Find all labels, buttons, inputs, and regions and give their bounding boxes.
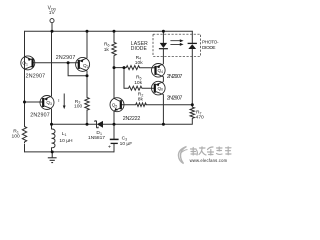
svg-text:2N2907: 2N2907 <box>56 55 76 61</box>
transistor Q4 2N2907 PNP <box>152 64 166 78</box>
svg-text:+: + <box>108 145 111 151</box>
wire R6 top from rail <box>113 31 115 42</box>
svg-text:1N5817: 1N5817 <box>88 135 105 141</box>
svg-text:PHOTO-: PHOTO- <box>202 39 219 44</box>
node Q2 collector <box>86 74 89 77</box>
light arrows <box>170 39 183 46</box>
svg-text:10k: 10k <box>135 60 143 66</box>
svg-text:www.elecfans.com: www.elecfans.com <box>190 158 228 163</box>
watermark logo swoosh <box>178 147 187 164</box>
svg-text:8k: 8k <box>138 96 144 102</box>
resistor R7 470 vertical <box>190 107 194 118</box>
wire Q2 column from rail <box>86 31 88 58</box>
resistor R2 8k horizontal <box>136 103 147 107</box>
svg-text:10k: 10k <box>134 80 142 86</box>
wire Q2 collector down to R3 <box>86 71 88 98</box>
wire node to Q5 collector <box>113 68 115 99</box>
wire R3 bottom to node rail <box>86 110 88 124</box>
current arrow I <box>63 94 66 110</box>
wire Q3 base lead <box>25 101 44 103</box>
wire bottom ground rail <box>25 151 115 153</box>
node R3 bottom <box>86 123 89 126</box>
resistor R4 10k horizontal <box>126 66 139 70</box>
transistor Q1 2N2907 PNP <box>21 56 35 70</box>
svg-text:2N2222: 2N2222 <box>123 116 141 122</box>
node R4 left <box>123 66 126 69</box>
svg-text:2N2907: 2N2907 <box>167 95 183 101</box>
resistor R6 1k vertical <box>112 42 116 55</box>
svg-text:DIODE: DIODE <box>131 46 148 52</box>
svg-text:2N2907: 2N2907 <box>26 74 46 80</box>
node Q5 collector <box>113 66 116 69</box>
svg-text:1V: 1V <box>49 10 56 16</box>
wire photodiode anode from rail corner <box>191 31 193 43</box>
wire laser cathode to Q4 <box>162 49 164 63</box>
wire L1 bottom to ground dot <box>51 148 53 152</box>
transistor Q3 2N2907 PNP <box>40 96 54 110</box>
wire R2 to photodiode node <box>146 104 192 106</box>
svg-text:2N2907: 2N2907 <box>167 74 183 80</box>
node Q3 base <box>23 101 26 104</box>
node L <box>50 123 53 126</box>
wire Q1-Q2 base link <box>33 62 79 64</box>
wire R4 base line <box>114 67 126 69</box>
transistor Q5 2N2222 NPN <box>110 98 124 112</box>
node laser rail <box>162 30 165 33</box>
transistor Q2 2N2907 PNP diode connected <box>76 57 90 71</box>
wire Q5 base to R2 <box>121 104 136 106</box>
capacitor C3 10uF <box>110 139 119 143</box>
wire Q6 collector to output rail <box>162 95 164 125</box>
wire node L to D1 cathode <box>52 123 96 125</box>
wire output rail D1 to R7 corner <box>103 119 192 125</box>
wire R6 bottom to node <box>113 56 115 68</box>
resistor R1 100 vertical <box>22 127 26 144</box>
node ground <box>51 150 54 153</box>
resistor R3 100 vertical <box>85 98 89 111</box>
svg-text:10 µH: 10 µH <box>59 138 73 144</box>
wire top rail <box>25 30 193 32</box>
wire photodiode cathode to node <box>191 49 193 105</box>
watermark CJK text <box>191 147 232 155</box>
resistor R5 10k horizontal <box>129 86 142 90</box>
node Q2 rail <box>86 30 89 33</box>
svg-text:10 µF: 10 µF <box>120 141 133 147</box>
svg-text:1k: 1k <box>104 47 110 53</box>
ground <box>48 152 57 163</box>
wire C3 bottom lead <box>113 144 115 152</box>
wire VDD stub <box>51 23 53 32</box>
node photodiode R7 <box>191 103 194 106</box>
wire R4 right to Q4 base <box>140 67 156 69</box>
svg-text:2N2907: 2N2907 <box>30 112 50 118</box>
node C3 top <box>113 123 116 126</box>
wire R5 right to Q6 base <box>142 87 155 89</box>
wire Q4 collector to Q6 emitter <box>162 77 164 81</box>
wire C3 top lead <box>113 124 115 139</box>
node Q6 collector <box>162 123 165 126</box>
wire R4R5 tie vertical <box>123 68 125 89</box>
wire Q2 diode connect L path <box>68 63 87 76</box>
optocoupler dashed box <box>153 34 201 56</box>
svg-text:100: 100 <box>12 134 20 140</box>
node R6 rail <box>113 30 116 33</box>
wire VDD column down to Q3 <box>51 31 53 96</box>
VDD terminal circle <box>50 19 54 23</box>
wire laser anode from rail <box>162 31 164 43</box>
inductor L1 10uH <box>52 129 56 148</box>
node base link <box>67 61 70 64</box>
node VDD rail <box>51 30 54 33</box>
wire left column below R1 <box>24 144 26 152</box>
transistor Q6 2N2907 PNP <box>152 81 166 95</box>
laser diode <box>159 43 168 49</box>
svg-text:470: 470 <box>196 115 204 121</box>
wire Q3 collector to node L <box>51 109 53 124</box>
wire left column <box>24 31 26 126</box>
wire Q5 emitter to output rail <box>113 111 115 124</box>
svg-text:I: I <box>58 98 59 103</box>
photodiode <box>188 43 197 49</box>
diode D1 1N5817 schottky <box>95 121 103 128</box>
wire R7 top lead <box>191 105 193 107</box>
svg-text:100: 100 <box>74 104 82 110</box>
svg-text:DIODE: DIODE <box>202 45 216 50</box>
wire R5 left lead <box>124 87 129 89</box>
